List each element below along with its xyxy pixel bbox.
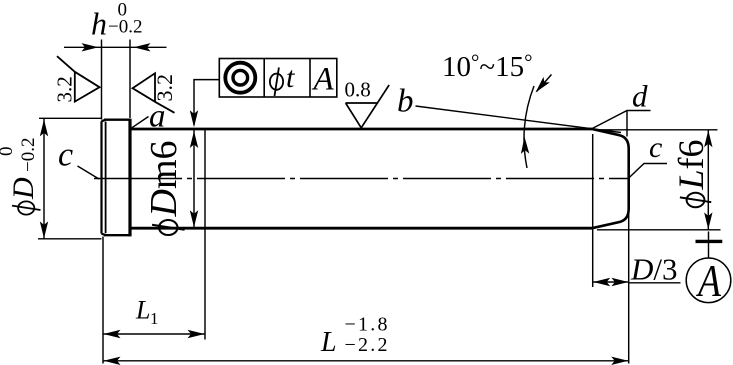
datum A symbol (708, 232, 710, 259)
dimension phiLf6 extension lines (596, 130, 721, 230)
dimension D/3 extension and line (592, 134, 594, 287)
shaft outline (130, 128, 592, 131)
svg-text:D/3: D/3 (630, 252, 678, 287)
svg-text:A: A (696, 255, 722, 306)
svg-text:d: d (632, 79, 648, 114)
chamfer generatrix line (b) (416, 106, 622, 133)
dimension L1 line (103, 333, 205, 335)
dimension L line (103, 360, 629, 362)
svg-text:0.8: 0.8 (345, 78, 371, 102)
svg-text:−0.2: −0.2 (108, 17, 142, 38)
svg-text:L: L (135, 296, 150, 325)
svg-text:a: a (149, 99, 166, 135)
c leader left (78, 166, 100, 179)
svg-text:t: t (286, 61, 295, 94)
c leader right (629, 164, 667, 179)
dimension text phiDm6 rotated (143, 140, 185, 235)
svg-text:b: b (397, 84, 414, 120)
a leader (132, 117, 149, 128)
svg-text:−0.2: −0.2 (18, 138, 39, 172)
dimension phiDm6 line (193, 129, 195, 228)
svg-text:−1.8: −1.8 (345, 314, 388, 336)
feature control frame box (219, 59, 336, 98)
svg-text:3.2: 3.2 (152, 74, 177, 102)
svg-text:h: h (91, 6, 107, 42)
roughness 3.2 left symbol (57, 56, 100, 101)
svg-text:D: D (7, 177, 40, 200)
dimension phiLf6 line (707, 130, 709, 230)
dimension phiD extension lines (38, 118, 102, 239)
d leader (592, 111, 651, 137)
roughness 0.8 symbol (346, 85, 390, 128)
dimension text phiLf6 rotated (671, 139, 711, 207)
dimension h extension lines (102, 40, 131, 120)
svg-text:10°~15°: 10°~15° (442, 50, 533, 84)
svg-text:3.2: 3.2 (53, 76, 77, 102)
head right face (128, 119, 131, 237)
dimension text phiD 0/-0.2 rotated (0, 138, 41, 215)
svg-text:Dm6: Dm6 (143, 140, 185, 217)
centerline (axis) (94, 178, 629, 180)
feature control frame text (270, 68, 283, 97)
svg-text:L: L (320, 327, 337, 358)
pin head outline (102, 120, 131, 236)
svg-text:−2.2: −2.2 (345, 334, 388, 356)
svg-text:1: 1 (150, 309, 159, 328)
svg-text:A: A (312, 62, 335, 98)
svg-text:Lf6: Lf6 (671, 139, 711, 190)
angle dimension arc 10-15 deg (524, 86, 534, 168)
svg-text:c: c (58, 137, 73, 174)
shaft end chamfer and end face (592, 129, 629, 228)
dimension L1 extension lines (103, 130, 205, 364)
svg-text:c: c (649, 131, 662, 164)
svg-text:0: 0 (0, 147, 17, 157)
roughness 3.2 right symbol (133, 73, 175, 113)
dimension h line (64, 46, 167, 48)
feature control frame leader (194, 80, 219, 125)
L right extension line (628, 210, 630, 364)
dimension phiD line (43, 119, 45, 239)
concentricity symbol (225, 63, 255, 93)
